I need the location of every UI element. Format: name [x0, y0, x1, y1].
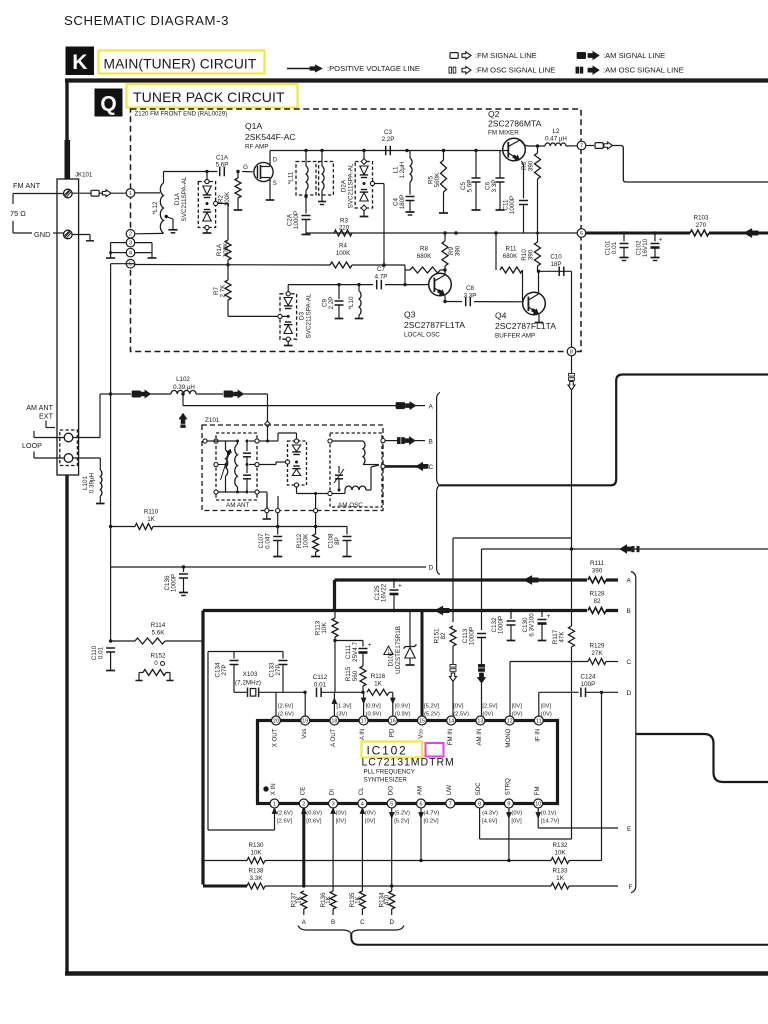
capacitor C9 2.2P — [338, 285, 340, 299]
svg-text:AM OSC: AM OSC — [338, 502, 363, 509]
svg-text:PLL FREQUENCY: PLL FREQUENCY — [364, 769, 415, 776]
svg-text:(0V): (0V) — [541, 712, 552, 718]
svg-text:VDD: VDD — [418, 729, 425, 739]
wire brace to bottom line — [351, 933, 768, 945]
svg-text:MONO: MONO — [505, 728, 512, 747]
svg-text:1000P: 1000P — [509, 196, 516, 214]
capacitor C101 0.01 — [622, 231, 625, 234]
svg-text:BUFFER AMP: BUFFER AMP — [495, 333, 535, 340]
svg-text:B: B — [627, 608, 631, 615]
svg-text:0.01: 0.01 — [611, 241, 618, 254]
inductor L2 0.47uH — [545, 143, 566, 146]
capacitor C112 0.01 — [303, 691, 306, 694]
svg-text:390: 390 — [455, 245, 462, 256]
pin 4 CL — [358, 799, 367, 808]
svg-text:+: + — [368, 642, 372, 649]
svg-text:[0V]: [0V] — [541, 704, 552, 710]
svg-text:6.3V100: 6.3V100 — [529, 613, 536, 637]
svg-text:C: C — [627, 659, 632, 666]
wire D2A mid to tuning line — [370, 181, 374, 185]
supply bus A thick — [335, 578, 619, 581]
pin 14 FM IN — [447, 716, 456, 725]
svg-text:D101: D101 — [388, 651, 395, 667]
svg-text:Z120 FM FRONT END (RAL0029): Z120 FM FRONT END (RAL0029) — [135, 111, 228, 118]
capacitor C2A 1000P — [305, 197, 307, 214]
Z101 left edge nodes — [203, 439, 207, 443]
svg-text:10K: 10K — [321, 622, 328, 634]
wire pin10 FM to E — [537, 808, 539, 828]
svg-text:R138: R138 — [248, 868, 264, 875]
svg-text:G: G — [243, 164, 248, 171]
svg-text:FM IN: FM IN — [447, 729, 454, 746]
wire pin3 DI — [332, 808, 334, 891]
svg-text:RF AMP: RF AMP — [245, 144, 268, 151]
capacitor C4 180P — [409, 182, 411, 195]
main circuit border frame — [65, 78, 768, 82]
wire L11 bottoms — [305, 190, 307, 197]
resistor R111 390 — [587, 575, 606, 586]
svg-text:3.3K: 3.3K — [250, 875, 264, 882]
svg-text:UW: UW — [446, 785, 453, 795]
IC102 yellow highlight box — [362, 742, 423, 758]
svg-text:[0.6V]: [0.6V] — [306, 819, 322, 825]
varactor D2A SVC211SPA-AL — [355, 162, 372, 209]
thick AM line node6 to right edge with R103 — [586, 232, 768, 235]
svg-text:82: 82 — [593, 598, 601, 605]
resistor R4 100K — [330, 262, 352, 268]
svg-text:17: 17 — [361, 718, 367, 724]
svg-text:100K: 100K — [303, 533, 310, 549]
svg-text:7: 7 — [449, 801, 452, 807]
wire L102 to Z101 top node — [267, 394, 269, 421]
svg-text:27K: 27K — [591, 650, 603, 657]
svg-text:R133: R133 — [552, 868, 568, 875]
wire pin1 X IN to crystal rail — [274, 808, 276, 830]
svg-text:AM IN: AM IN — [476, 729, 483, 746]
line R130 R132 — [203, 860, 247, 862]
svg-text:560K: 560K — [434, 172, 441, 188]
svg-text:15: 15 — [419, 718, 425, 724]
svg-text:[2.6V]: [2.6V] — [278, 704, 294, 710]
pin 18 A OUT — [330, 716, 339, 725]
svg-text:16: 16 — [390, 718, 396, 724]
svg-text:27P: 27P — [275, 664, 282, 675]
svg-text:2SC2787FL1TA: 2SC2787FL1TA — [495, 321, 556, 331]
svg-text:+: + — [659, 237, 663, 244]
legend positive voltage line — [287, 68, 313, 70]
pin 5 DO — [387, 799, 396, 808]
capacitor C5 5.6P — [475, 151, 477, 179]
node 2 — [126, 230, 135, 239]
svg-text:2.2P: 2.2P — [382, 136, 395, 143]
svg-text:GND: GND — [34, 230, 50, 239]
Z101 AM OSC output coil — [330, 493, 339, 495]
svg-text:B: B — [429, 438, 433, 445]
resistor R117 47K — [571, 611, 573, 627]
svg-text:11: 11 — [536, 718, 542, 724]
capacitor C130 6.3V100 electrolytic — [540, 609, 543, 612]
svg-text:5.6P: 5.6P — [467, 180, 474, 193]
wire D1A mid to R1A — [214, 201, 218, 205]
svg-text:R152: R152 — [150, 653, 166, 660]
svg-text:[1.3V]: [1.3V] — [336, 704, 352, 710]
varactor D3 SVC211SPA-AL — [280, 294, 297, 339]
svg-text:AM ANT: AM ANT — [226, 502, 250, 509]
svg-text:*L10: *L10 — [348, 296, 355, 309]
svg-text:100K: 100K — [336, 250, 351, 257]
brace under A-D — [298, 926, 404, 934]
svg-text:3: 3 — [332, 801, 335, 807]
svg-text:(0.6V): (0.6V) — [306, 811, 322, 817]
svg-text:0.01: 0.01 — [314, 682, 327, 689]
svg-text:MAIN(TUNER) CIRCUIT: MAIN(TUNER) CIRCUIT — [104, 57, 257, 72]
wire to pin14 FM IN — [453, 537, 572, 539]
svg-text:16V22: 16V22 — [381, 583, 388, 602]
resistor R10 390 — [537, 233, 539, 242]
resistor R132 10K — [551, 858, 569, 864]
tuner pack dashed box Z120 — [131, 109, 582, 352]
wire D node down to R132 — [601, 692, 603, 860]
svg-text:X OUT: X OUT — [272, 728, 279, 747]
svg-text:100P: 100P — [581, 681, 596, 688]
svg-text:25V4.7: 25V4.7 — [352, 642, 359, 662]
capacitor C113 1000P — [477, 633, 486, 635]
pin 7 UW — [446, 799, 455, 808]
block label Q — [95, 89, 123, 117]
svg-text:R114: R114 — [151, 622, 166, 629]
svg-text:S: S — [273, 181, 277, 187]
capacitor C107 0.047 — [277, 513, 279, 535]
svg-text:L2: L2 — [553, 128, 560, 135]
resistor R11 680K — [495, 233, 497, 270]
svg-text:C7: C7 — [377, 266, 385, 273]
terminal EXT — [64, 433, 73, 442]
svg-text:Q1A: Q1A — [245, 121, 262, 131]
resistor R6 390 — [537, 146, 539, 153]
svg-text:(0.1V): (0.1V) — [541, 811, 557, 817]
varactor diode pair in Z101 — [288, 441, 307, 485]
label TUNER PACK CIRCUIT — [127, 84, 298, 108]
wires node3/node4 to ground bars — [111, 242, 127, 244]
svg-text:(0V): (0V) — [512, 712, 523, 718]
Z101 AM OSC coil — [332, 440, 363, 442]
svg-text::FM OSC SIGNAL LINE: :FM OSC SIGNAL LINE — [475, 66, 555, 75]
inductor L102 0.39uH line with AM markers — [109, 392, 112, 395]
voltage arrows — [332, 698, 337, 704]
svg-text:[5.2V]: [5.2V] — [394, 819, 410, 825]
wire pin6 AM — [420, 808, 422, 861]
capacitor C102 16V10 electrolytic — [653, 231, 656, 234]
svg-text:1K: 1K — [374, 681, 383, 688]
svg-text:220: 220 — [339, 225, 350, 232]
resistor R135 1K — [359, 891, 365, 909]
svg-text:R110: R110 — [144, 509, 159, 516]
resistor R7 2.7K — [227, 265, 229, 280]
svg-text:R111: R111 — [590, 560, 605, 567]
inductor L10 — [358, 285, 360, 291]
stub node to bar — [266, 513, 268, 519]
svg-text:IF IN: IF IN — [534, 729, 541, 742]
svg-text:[0.9V]: [0.9V] — [366, 704, 382, 710]
svg-text:K: K — [72, 51, 87, 74]
svg-text:LC72131MDTRM: LC72131MDTRM — [362, 757, 455, 769]
positive voltage arrow on AM line — [744, 229, 758, 238]
svg-text:0: 0 — [154, 660, 158, 667]
svg-text:0.01: 0.01 — [98, 646, 105, 659]
resistor R134 470 — [389, 891, 395, 909]
svg-text:10K: 10K — [554, 850, 566, 857]
pin 17 A IN — [359, 716, 368, 725]
Z101 AM ANT sub box — [216, 433, 257, 500]
svg-text:[2.6V]: [2.6V] — [277, 819, 293, 825]
svg-text:L102: L102 — [176, 376, 190, 383]
wire EXT terminal to L102 line — [73, 437, 100, 439]
FM signal marker after node 7 — [586, 145, 594, 147]
svg-text:Z101: Z101 — [205, 417, 220, 424]
svg-text:Q2: Q2 — [488, 109, 500, 119]
svg-text:DO: DO — [387, 786, 394, 795]
svg-text:Q3: Q3 — [404, 310, 416, 320]
resistor R2 100K — [236, 170, 239, 173]
svg-text:A: A — [429, 403, 434, 410]
svg-text:2.7K: 2.7K — [220, 284, 227, 298]
svg-text:DI: DI — [329, 789, 336, 795]
svg-text:1K: 1K — [325, 895, 332, 904]
svg-text:UDZSTE175R1B: UDZSTE175R1B — [395, 626, 402, 674]
terminal GND — [64, 230, 73, 239]
resistor R128 82 — [587, 605, 606, 616]
AM OSC marker to pin 13 — [479, 665, 485, 668]
svg-text:(5.2V): (5.2V) — [424, 712, 440, 718]
svg-text:+: + — [547, 613, 551, 620]
svg-text:X103: X103 — [243, 671, 258, 678]
svg-text:R115: R115 — [345, 666, 352, 681]
svg-text:(0.9V): (0.9V) — [395, 712, 411, 718]
svg-text:Vss: Vss — [301, 729, 308, 739]
svg-text:Q4: Q4 — [495, 311, 507, 321]
AM rail inside tuner pack — [306, 232, 577, 234]
svg-text:27P: 27P — [221, 664, 228, 675]
AM marker below A line branch — [179, 414, 187, 424]
legend FM OSC signal line — [449, 67, 452, 73]
svg-text:[0V]: [0V] — [512, 704, 523, 710]
svg-text:470: 470 — [384, 894, 391, 905]
svg-text:20: 20 — [273, 718, 279, 724]
node 3 — [126, 238, 135, 247]
pin 10 FM — [534, 799, 543, 808]
svg-text:(3V): (3V) — [336, 712, 347, 718]
capacitor C125 16V22 electrolytic — [392, 578, 395, 581]
node 5 — [126, 259, 135, 268]
svg-text:EXT: EXT — [39, 412, 54, 421]
svg-text:1K: 1K — [556, 875, 565, 882]
svg-text:47K: 47K — [559, 631, 566, 643]
wire L12 top rail to C1A — [163, 172, 165, 184]
svg-text:FM MIXER: FM MIXER — [488, 130, 519, 137]
svg-text:100K: 100K — [223, 242, 230, 258]
svg-text:680K: 680K — [503, 253, 518, 260]
svg-text:0.39µH: 0.39µH — [89, 472, 96, 493]
connector loop terminals dashed box — [60, 430, 78, 466]
svg-text:1000P: 1000P — [469, 627, 476, 645]
svg-text:75 Ω: 75 Ω — [10, 209, 26, 218]
net line B with AM OSC marker — [381, 439, 385, 443]
svg-text:8P: 8P — [334, 537, 341, 545]
svg-text:(0.9V): (0.9V) — [366, 712, 382, 718]
capacitor C8 3.3P — [445, 301, 523, 303]
svg-text:1000P: 1000P — [171, 574, 178, 592]
svg-text:Q: Q — [100, 93, 116, 116]
svg-text:(2.5V): (2.5V) — [453, 712, 469, 718]
svg-text:[0V]: [0V] — [453, 704, 464, 710]
svg-text:R8: R8 — [420, 246, 428, 253]
thick feed to VDD pin15 — [421, 611, 424, 721]
svg-text:5.6K: 5.6K — [152, 630, 166, 637]
node 4 — [126, 248, 135, 257]
IC IC102 LC72131MDTRM body — [258, 721, 558, 804]
svg-text:180P: 180P — [399, 195, 406, 210]
pin 20 X OUT — [272, 716, 281, 725]
wire Q2 emitter down with capacitor C11 1000P — [522, 161, 524, 165]
zener diode D101 UDZSTE175R1B — [409, 611, 411, 647]
svg-text:R4: R4 — [339, 243, 347, 250]
capacitor C134 27P — [233, 652, 235, 659]
svg-text:680K: 680K — [417, 253, 432, 260]
svg-text:2SC2787FL1TA: 2SC2787FL1TA — [404, 320, 465, 330]
resistor R113 10K — [334, 612, 336, 618]
line R138 R133 F — [203, 885, 247, 888]
svg-text:(0V): (0V) — [336, 811, 347, 817]
svg-text:4.7P: 4.7P — [375, 274, 388, 281]
svg-text:FM ANT: FM ANT — [13, 181, 41, 190]
svg-text:(0V): (0V) — [365, 811, 376, 817]
node 8 — [567, 347, 576, 356]
wire FM ANT to node 1 with FM marker — [72, 192, 126, 194]
svg-text:JK101: JK101 — [75, 172, 93, 179]
resistor R110 1K line — [109, 525, 112, 528]
svg-text:[0V]: [0V] — [365, 819, 376, 825]
svg-text:C: C — [429, 464, 434, 471]
svg-text:D: D — [627, 690, 632, 697]
svg-text::FM SIGNAL LINE: :FM SIGNAL LINE — [475, 51, 537, 60]
svg-text:2.2P: 2.2P — [328, 297, 335, 310]
svg-text:+: + — [398, 583, 402, 590]
svg-text:3.3P: 3.3P — [464, 293, 477, 300]
svg-text:SYNTHESIZER: SYNTHESIZER — [364, 777, 408, 784]
svg-text:4: 4 — [129, 251, 132, 257]
Z101 AM OSC sub box — [330, 433, 382, 507]
Z101 bottom edge nodes — [265, 509, 269, 513]
wire varactor line to Q3 base — [288, 284, 429, 286]
resistor R136 1K — [330, 891, 336, 909]
svg-text:3.3P: 3.3P — [491, 180, 498, 193]
resistor R133 1K — [551, 883, 569, 889]
capacitor C3 2.2P — [385, 146, 387, 156]
svg-text:390: 390 — [528, 249, 535, 260]
capacitor C136 1000P — [183, 567, 185, 572]
resistor R9 390 — [444, 233, 446, 241]
pin 12 MONO — [505, 716, 514, 725]
svg-text:R103: R103 — [693, 215, 709, 222]
wire node 8 down with FM OSC marker — [571, 356, 573, 373]
svg-text:(0V): (0V) — [511, 811, 522, 817]
svg-text:C10: C10 — [550, 254, 562, 261]
AM signal line to right edge — [482, 548, 768, 550]
resistor R112 100K — [315, 513, 317, 534]
wire GND terminal stub — [72, 234, 90, 236]
svg-text:5.6P: 5.6P — [216, 162, 229, 169]
svg-text:[4.6V]: [4.6V] — [482, 819, 498, 825]
wire LOOP terminal to L101 — [73, 457, 101, 459]
pin 19 Vss — [301, 716, 310, 725]
svg-text:2SK544F-AC: 2SK544F-AC — [245, 132, 296, 142]
svg-text:CL: CL — [358, 787, 365, 795]
IC pin1 orientation dot — [263, 786, 268, 791]
svg-text:[0.2V]: [0.2V] — [424, 819, 440, 825]
wire Q2 collector to node 7 — [524, 145, 528, 146]
svg-text:7: 7 — [580, 143, 583, 149]
svg-text::AM OSC SIGNAL LINE: :AM OSC SIGNAL LINE — [603, 66, 684, 75]
svg-text:1K: 1K — [296, 895, 303, 904]
svg-text:C111: C111 — [345, 644, 352, 659]
resistor R137 1K — [301, 891, 307, 909]
antenna coax lead — [65, 140, 71, 179]
pin wires into IC top — [304, 692, 306, 720]
wire pin12 MONO — [509, 662, 511, 721]
node 1 — [126, 189, 135, 198]
net line A with AM marker — [183, 405, 396, 407]
svg-text:SVC211SPA-AL: SVC211SPA-AL — [306, 293, 313, 338]
svg-text:SVC211SPA-AL: SVC211SPA-AL — [181, 176, 188, 221]
label MAIN(TUNER) CIRCUIT — [99, 51, 265, 74]
net line D — [111, 566, 426, 568]
svg-text:F: F — [629, 884, 633, 891]
pin 1 X IN — [270, 799, 279, 808]
svg-text::POSITIVE VOLTAGE LINE: :POSITIVE VOLTAGE LINE — [327, 64, 420, 73]
svg-text:0.047: 0.047 — [265, 533, 272, 549]
svg-text:(2.6V): (2.6V) — [277, 811, 293, 817]
svg-text:*L11: *L11 — [288, 171, 295, 184]
svg-text:(4.3V): (4.3V) — [482, 811, 498, 817]
svg-text:CE: CE — [299, 787, 306, 795]
FM OSC marker to pin 14 — [452, 646, 454, 664]
wire FM ANT to terminal — [13, 193, 64, 195]
svg-text:390: 390 — [592, 568, 603, 575]
wire continues down to R117 column — [571, 538, 573, 611]
svg-text:D: D — [429, 565, 434, 572]
positive voltage arrow on bus B — [435, 606, 449, 615]
svg-text:6: 6 — [580, 231, 583, 237]
terminal LOOP — [64, 454, 73, 463]
capacitor C10 18P — [539, 270, 572, 272]
pin 15 VDD — [418, 716, 427, 725]
wire C1A to gate — [242, 171, 253, 173]
svg-text:(2.6V): (2.6V) — [278, 712, 294, 718]
resistor R5 560K — [443, 151, 445, 161]
svg-text::AM SIGNAL LINE: :AM SIGNAL LINE — [603, 51, 665, 60]
svg-text:8: 8 — [478, 801, 481, 807]
svg-text:[5.2V]: [5.2V] — [424, 704, 440, 710]
inductor L1 1.2uH — [407, 151, 410, 158]
wire stubs into loop terminals — [34, 437, 64, 439]
svg-text:[0V]: [0V] — [511, 819, 522, 825]
svg-text:C124: C124 — [580, 674, 596, 681]
svg-text:FM: FM — [534, 786, 541, 795]
legend AM OSC signal line — [576, 67, 579, 73]
magenta empty box — [426, 743, 444, 757]
svg-text:A: A — [627, 578, 632, 585]
svg-text:R130: R130 — [248, 842, 264, 849]
